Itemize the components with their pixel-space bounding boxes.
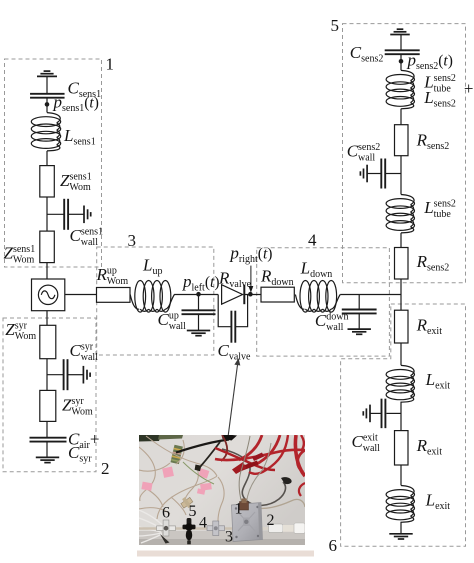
capacitor Cvalve plates [231, 311, 235, 343]
svg-text:Zsens1Wom: Zsens1Wom [60, 171, 92, 193]
tan cable right of plate [252, 499, 305, 508]
black alligator clip top [222, 434, 237, 441]
dashed box 5 (sensor 2 branch) [343, 24, 466, 283]
wire (stub to wall cap) [47, 213, 64, 215]
red cable across [215, 450, 305, 460]
green PCB strip [170, 445, 182, 464]
metal plate with sensor (item 1) [232, 503, 263, 542]
ground (wall, exit) [363, 405, 370, 423]
dashed box 4 (downstream branch) [257, 248, 390, 356]
black wire from small clip [200, 442, 220, 467]
impedance ZWom-syr (lower) [40, 390, 56, 421]
dashed box 1 (sensor 1 branch) [5, 59, 102, 267]
green thin wire [183, 462, 214, 484]
capacitor Cwall-exit [382, 399, 386, 429]
sensor wires to plate [239, 436, 250, 502]
capacitor Cwall-syr [64, 359, 68, 390]
ground (wall, sensor 1) [84, 206, 91, 224]
arrow from pright(t) label to node [249, 266, 252, 292]
AC source (pressure source) [32, 279, 65, 311]
wire (stub to wall cap) [47, 374, 64, 376]
number labels in photo [162, 501, 275, 546]
wire [46, 197, 48, 231]
svg-text:3: 3 [128, 231, 137, 250]
wire [358, 313, 360, 329]
red alligator clip [232, 453, 264, 475]
long dark-gray wire through middle [222, 449, 286, 505]
node pleft(t) [196, 292, 201, 297]
wire [367, 173, 381, 175]
wire [46, 98, 48, 113]
wire [400, 522, 402, 534]
black top bar wire [176, 440, 229, 453]
impedance ZWom-syr (upper) [40, 325, 56, 358]
inductor Lsens1 [31, 113, 60, 151]
wire [68, 374, 84, 376]
capacitor Csens2 [385, 50, 420, 54]
white cross fitting (item 6) [157, 520, 176, 544]
svg-text:Cexitwall: Cexitwall [352, 432, 381, 454]
capacitor Csens1 [30, 94, 65, 98]
impedance ZWom-sens1 (lower) [40, 231, 55, 263]
inductor Ltube-sens2 [386, 195, 414, 233]
wire (source to RWom-up) [65, 294, 97, 296]
svg-text:Zsens1Wom: Zsens1Wom [4, 244, 36, 266]
dashed box 2 (syringe branch) [3, 318, 96, 472]
inductor Lexit (upper) [386, 365, 414, 402]
wire (drop to Cwall-up) [198, 295, 200, 311]
inductor Ltube-sens2 + Lsens2 [386, 70, 414, 108]
wire [370, 412, 382, 414]
ground (bottom of exit branch) [389, 534, 412, 539]
wire (stub to wall cap) [386, 412, 401, 414]
svg-text:5: 5 [189, 503, 197, 520]
wire [400, 35, 402, 51]
resistor RWom-up [97, 288, 131, 303]
inductor Lexit (lower) [386, 486, 414, 523]
ground (top of sensor-1 branch) [37, 71, 57, 76]
wire [46, 421, 48, 437]
wire (stub to wall cap) [385, 173, 401, 175]
black stopcock (item 5) [183, 518, 196, 544]
brown sensor block on plate [240, 502, 249, 511]
node psens1(t) [45, 102, 50, 107]
svg-text:2: 2 [101, 459, 110, 478]
wire (drop to Cwall-down) [358, 295, 360, 310]
small tan connector above stopcock [179, 495, 194, 510]
wire [46, 76, 48, 93]
wire [174, 294, 218, 296]
wire [68, 213, 84, 215]
metal cross fitting (item 3, arrow target) [207, 521, 225, 536]
wire [46, 263, 48, 279]
thin tan wires [139, 436, 224, 521]
dark PCB piece top-left [139, 435, 161, 442]
wire [340, 294, 401, 296]
ground (bottom of syringe branch) [36, 457, 59, 462]
node psens2(t) [399, 59, 404, 64]
svg-text:3: 3 [225, 529, 233, 546]
capacitor Cwall-down [342, 310, 377, 314]
inductor Ldown [295, 281, 340, 313]
resistor Rsens2 (lower) [395, 248, 409, 280]
svg-text:6: 6 [329, 536, 338, 555]
capacitor Cvalve (parallel branch) [218, 295, 247, 327]
ground (wall, syringe) [83, 366, 90, 384]
maroon wire [221, 435, 227, 461]
photograph of experimental setup [137, 434, 314, 557]
faint white tubes lower-left [139, 510, 166, 543]
diode Rvalve [222, 285, 245, 305]
capacitor Cwall-sens1 [64, 199, 68, 230]
node pright(t) [248, 292, 253, 297]
svg-text:1: 1 [106, 55, 115, 74]
pale strip below photo [137, 551, 314, 557]
wire [198, 314, 200, 330]
dashed box 6 (exit branch, L-shaped) [341, 304, 466, 546]
wire [400, 109, 402, 125]
capacitor Cair+Csyr [30, 438, 67, 442]
wire [46, 442, 48, 458]
dashed box 3 (upstream branch) [97, 247, 214, 355]
wire [400, 156, 402, 195]
wire [400, 465, 402, 485]
capacitor Cwall-sens2 [381, 159, 385, 189]
wire [46, 151, 48, 166]
ground (wall, sensor 2) [360, 165, 367, 183]
ground (top of sensor-2 branch) [390, 29, 410, 34]
svg-text:4: 4 [199, 515, 207, 532]
inductor Lup [130, 281, 174, 313]
wire [46, 311, 48, 326]
resistor Rexit (lower) [395, 431, 409, 465]
impedance ZWom-sens1 (upper) [40, 166, 55, 197]
wire [46, 359, 48, 391]
arrow from photo (valve) to Cvalve label [217, 360, 240, 525]
resistor Rsens2 (upper) [395, 125, 409, 156]
red cables top-right [239, 435, 305, 496]
pink tape pieces [141, 467, 211, 495]
svg-text:6: 6 [162, 505, 170, 522]
svg-text:4: 4 [308, 231, 317, 250]
resistor Rdown [261, 287, 294, 302]
ground (wall, up) [187, 331, 210, 336]
svg-text:1: 1 [235, 501, 243, 518]
svg-text:5: 5 [331, 16, 340, 35]
capacitor Cwall-up [182, 310, 216, 314]
wire [400, 233, 402, 248]
svg-text:2: 2 [267, 512, 275, 529]
white luer connector (item 2) [269, 523, 306, 533]
beige tube through devices [139, 527, 234, 529]
wire [244, 294, 261, 296]
wire [400, 54, 402, 70]
wire [400, 343, 402, 365]
black clip bottom right [281, 477, 292, 484]
wire [400, 279, 402, 310]
resistor Rexit (upper) [395, 310, 409, 343]
wire [400, 402, 402, 431]
ground (wall, down) [348, 329, 371, 334]
